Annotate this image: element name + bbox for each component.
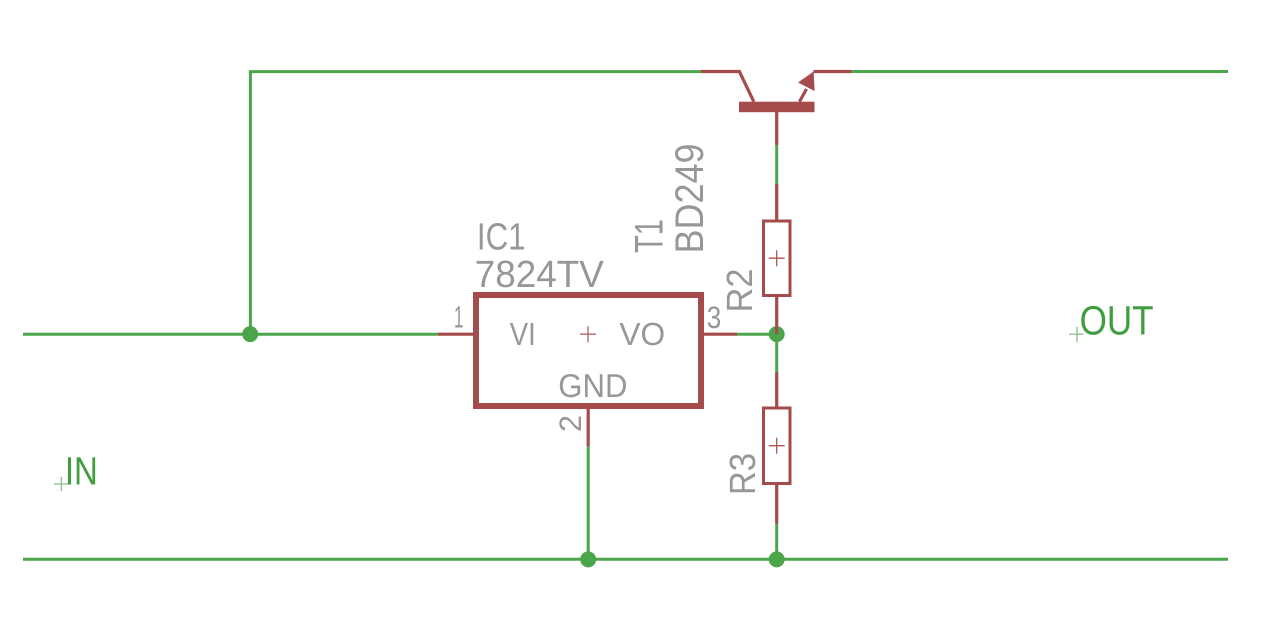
pin name VO (619, 316, 665, 352)
label R3 (722, 453, 763, 495)
pin number 2 (553, 415, 588, 432)
svg-text:IC1: IC1 (477, 216, 526, 258)
value 7824TV (475, 254, 605, 296)
wire: left vertical riser (249, 72, 252, 335)
junction: VO node at R2 bottom (769, 326, 785, 342)
transistor T1: base pin down (775, 112, 778, 145)
IC1 pin 3 (VO) lead (704, 333, 737, 336)
svg-text:BD249: BD249 (668, 144, 712, 254)
svg-text:T1: T1 (627, 219, 671, 253)
junction: GND net at IC pin 2 (580, 551, 596, 567)
label IC1 (477, 216, 526, 258)
wire: top horizontal left of T1 (249, 70, 701, 73)
svg-text:7824TV: 7824TV (475, 254, 605, 296)
IC1 origin cross (580, 326, 596, 342)
label T1 (627, 219, 671, 253)
wire: bottom ground rail (23, 558, 1228, 561)
pin number 3 (707, 300, 722, 335)
resistor R3: body (764, 408, 791, 484)
IC1 pin 2 (GND) lead (587, 409, 590, 446)
net label OUT origin cross (1069, 327, 1084, 342)
resistor R2: top pin (775, 184, 778, 220)
svg-text:VO: VO (619, 316, 665, 352)
wire: R3 to bottom rail (775, 524, 778, 560)
net label IN origin cross (54, 477, 69, 492)
svg-text:R2: R2 (719, 269, 760, 313)
pin number 1 (454, 300, 464, 335)
wire: T1 base to R2 (775, 145, 778, 184)
svg-text:VI: VI (510, 316, 536, 352)
svg-text:OUT: OUT (1080, 297, 1154, 343)
svg-text:IN: IN (65, 450, 98, 494)
resistor R3: origin cross (769, 438, 785, 454)
svg-text:R3: R3 (722, 453, 763, 495)
wire: mid junction to R3 (775, 334, 778, 372)
junction: GND net at R3 (769, 551, 785, 567)
wire: top horizontal right of T1 (852, 70, 1229, 73)
svg-text:1: 1 (454, 300, 464, 335)
svg-text:2: 2 (553, 415, 588, 432)
resistor R3: top pin (775, 372, 778, 409)
wire: input net, middle horizontal (23, 333, 438, 336)
IC1 pin 1 (VI) lead (438, 333, 473, 336)
transistor T1: collector lead (701, 72, 754, 102)
IC IC1: regulator body (476, 295, 701, 406)
resistor R2: body (764, 221, 791, 296)
resistor R2: bottom pin (775, 297, 778, 334)
pin name VI (510, 316, 536, 352)
value BD249 (668, 144, 712, 254)
wire: VO pin to junction (737, 333, 777, 336)
resistor R2: origin cross (769, 250, 785, 266)
resistor R3: bottom pin (775, 485, 778, 524)
label R2 (719, 269, 760, 313)
net label OUT (1080, 297, 1154, 343)
pin name GND (558, 367, 627, 404)
net label IN (65, 450, 98, 494)
transistor T1: base bar (739, 102, 815, 113)
junction: left riser joins input net (242, 326, 258, 342)
svg-text:GND: GND (558, 367, 627, 404)
transistor T1: emitter lead with arrow (798, 72, 852, 102)
wire: GND pin to bottom rail (587, 446, 590, 559)
